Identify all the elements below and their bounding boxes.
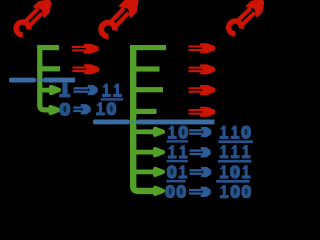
red arrow right row2 (189, 65, 215, 73)
blue arrow row8 (189, 189, 202, 191)
digit 1 (left) (62, 82, 67, 94)
red arrow right row3 (189, 86, 215, 94)
blue arrow row4 (73, 106, 81, 108)
string 101 (220, 165, 229, 178)
underline 110 (218, 140, 253, 143)
right cut line dashes over trunk (131, 121, 134, 124)
right branch 1 (130, 45, 166, 50)
left arrow 3 head (51, 87, 59, 93)
right arrow 5 head (155, 129, 163, 135)
right cut line (right segment) (137, 120, 214, 125)
right arrow 8 head (155, 188, 163, 194)
underline 10 row5 (167, 140, 188, 142)
string 01 (167, 165, 177, 179)
rotated red arrow 1 (13, 0, 55, 38)
right arrow 7 shaft (136, 170, 155, 175)
right branch 4 (130, 109, 157, 114)
underline 01 row7 (166, 180, 185, 182)
right arrow 7 head (155, 169, 163, 175)
blue arrow row6 (190, 149, 202, 151)
right cut line (left segment) (93, 120, 130, 125)
underline 11 row6 (167, 160, 188, 162)
right branch 3 (130, 87, 163, 92)
digit 0 (left) (59, 103, 70, 117)
blue arrow row3 (74, 87, 89, 89)
red arrow left row1 (72, 45, 98, 53)
right branch 2 (130, 66, 160, 71)
rotated red arrow 2 (98, 0, 142, 40)
left cut line dashes over trunk (37, 79, 40, 82)
left branch 1 (37, 45, 59, 50)
string 00 (165, 185, 175, 199)
left cut line (left segment) (9, 78, 36, 83)
red arrow right row1 (189, 44, 215, 52)
string 11 (102, 84, 111, 97)
string 10 (168, 126, 177, 139)
blue arrow row5 (189, 129, 202, 131)
left cut line (right segment) (44, 78, 75, 83)
rotated red arrow 3 (225, 0, 267, 37)
right tree trunk with curve into bottom arrow (133, 45, 153, 191)
red arrow right row4 (189, 108, 215, 116)
underline 111 (218, 160, 252, 163)
underline 11 (101, 98, 123, 100)
left arrow 4 head (51, 107, 59, 113)
red arrow left row2 (73, 65, 99, 73)
right arrow 6 shaft (136, 150, 155, 155)
left tree trunk with curve into bottom arrow (40, 45, 52, 110)
blue arrow row7 (190, 169, 203, 171)
string 111 (220, 145, 229, 158)
right arrow 5 shaft (136, 129, 155, 134)
left branch 2 (37, 66, 60, 71)
left arrow 3 shaft (42, 88, 53, 93)
string 100 (220, 185, 229, 198)
right arrow 6 head (155, 149, 163, 155)
string 11 (168, 145, 177, 158)
string 10 (96, 102, 105, 115)
underline 101 (216, 180, 249, 183)
string 110 (220, 126, 229, 139)
